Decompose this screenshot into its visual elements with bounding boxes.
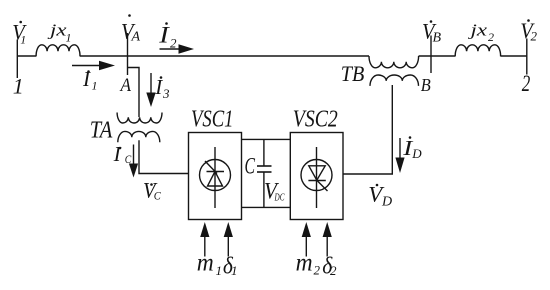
capacitor C plate upper: [257, 165, 272, 167]
svg-text:I: I: [82, 67, 91, 91]
arrow delta1 head: [224, 222, 233, 237]
arrow I1 shaft: [72, 65, 100, 67]
svg-text:2: 2: [522, 71, 531, 96]
label VA dot: [128, 14, 131, 17]
capacitor C plate lower: [257, 171, 272, 173]
arrow m2 shaft: [305, 236, 307, 257]
wire main bus right of TB: [419, 55, 456, 57]
label I1 dot: [87, 70, 90, 73]
svg-text:2: 2: [314, 263, 321, 278]
converter VSC1 valve gate slash: [205, 161, 217, 174]
label V1 dot: [19, 21, 22, 24]
svg-text:C: C: [154, 191, 161, 203]
transformer TB primary: [369, 56, 419, 68]
arrow m1 head: [200, 222, 209, 237]
wire TA to VSC1: [139, 140, 189, 173]
label VB dot: [430, 20, 433, 23]
node bus A bar: [127, 33, 129, 75]
svg-text:I: I: [154, 75, 163, 99]
svg-text:TB: TB: [341, 61, 365, 86]
inductor jx1: [36, 45, 80, 57]
svg-text:VSC1: VSC1: [191, 107, 234, 133]
svg-text:TA: TA: [90, 118, 113, 144]
arrow I3 shaft: [150, 73, 152, 94]
converter VSC2 through line: [316, 147, 318, 208]
svg-text:2: 2: [330, 263, 337, 278]
svg-text:D: D: [411, 146, 422, 161]
converter VSC1 box: [189, 133, 242, 220]
capacitor C lead lower: [263, 172, 265, 207]
arrow IC head: [129, 164, 138, 178]
arrow I2 head: [179, 44, 195, 53]
svg-text:m: m: [197, 250, 214, 277]
arrow m1 shaft: [204, 236, 206, 257]
svg-text:3: 3: [162, 86, 170, 101]
label VD dot: [376, 184, 379, 187]
transformer TA secondary: [118, 131, 160, 142]
converter VSC1 valve bar: [207, 171, 225, 173]
arrow delta1 shaft: [227, 236, 229, 257]
wire main bus right stub: [501, 55, 527, 57]
converter VSC2 valve bar: [308, 180, 325, 182]
arrow ID shaft: [399, 138, 401, 158]
svg-text:B: B: [421, 75, 431, 95]
arrow ID head: [395, 158, 404, 174]
svg-text:I: I: [113, 142, 122, 166]
svg-text:DC: DC: [274, 193, 285, 204]
converter VSC2 valve gate slash: [316, 180, 328, 192]
wire branch bus A to TA: [128, 68, 140, 118]
svg-text:C: C: [125, 154, 132, 166]
converter VSC1 through line: [214, 147, 216, 208]
svg-text:jx: jx: [47, 21, 67, 40]
svg-text:2: 2: [531, 29, 538, 44]
arrow delta2 head: [323, 222, 332, 237]
label V2 dot: [527, 19, 530, 22]
svg-text:m: m: [296, 250, 313, 277]
label IC dot: [119, 147, 122, 150]
svg-text:jx: jx: [468, 21, 488, 40]
svg-text:1: 1: [66, 30, 72, 44]
arrow I2 shaft: [160, 48, 181, 50]
wire main bus left stub: [17, 55, 36, 57]
converter VSC2 box: [290, 133, 343, 220]
capacitor C lead upper: [263, 139, 265, 166]
transformer TA primary: [117, 113, 162, 124]
wire VSC2 to TB: [343, 85, 392, 174]
node bus B bar: [430, 36, 432, 74]
svg-text:D: D: [381, 195, 392, 210]
svg-text:1: 1: [13, 74, 24, 99]
node bus 2 bar: [526, 39, 528, 75]
wire dc link bottom: [242, 206, 291, 208]
svg-text:I: I: [158, 23, 170, 48]
label I2 dot: [165, 22, 168, 25]
svg-text:A: A: [119, 75, 132, 96]
node bus 1 bar: [16, 40, 18, 79]
converter VSC1 valve circle: [200, 160, 231, 191]
converter VSC2 valve circle: [301, 160, 332, 191]
label VC dot: [150, 183, 153, 186]
arrow I1 head: [99, 61, 115, 71]
label ID dot: [409, 136, 412, 139]
svg-text:2: 2: [170, 36, 177, 51]
wire main bus middle: [80, 55, 369, 57]
arrow IC shaft: [133, 145, 135, 166]
arrow I3 head: [146, 93, 155, 108]
wire dc link top: [242, 138, 291, 140]
svg-text:1: 1: [231, 263, 238, 278]
converter VSC2 valve triangle: [309, 166, 325, 180]
svg-text:VSC2: VSC2: [293, 107, 338, 133]
converter VSC1 valve triangle: [208, 172, 223, 187]
transformer TB secondary: [370, 75, 419, 86]
arrow m2 head: [302, 222, 311, 237]
svg-text:B: B: [433, 31, 442, 46]
svg-text:A: A: [131, 30, 141, 45]
arrow delta2 shaft: [326, 236, 328, 257]
label I3 dot: [160, 76, 163, 79]
svg-text:1: 1: [216, 263, 223, 278]
svg-text:2: 2: [488, 30, 494, 44]
svg-text:1: 1: [92, 79, 98, 93]
svg-text:C: C: [245, 154, 256, 179]
svg-text:1: 1: [20, 33, 26, 47]
inductor jx2: [455, 45, 500, 57]
